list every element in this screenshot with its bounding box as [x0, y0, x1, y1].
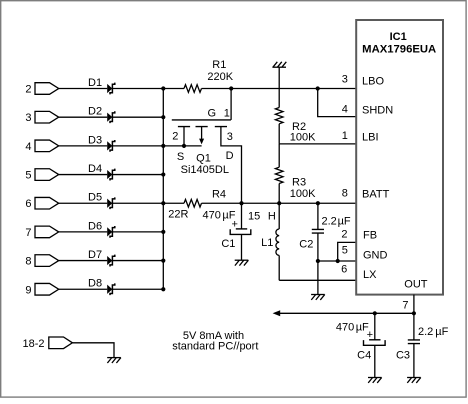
svg-text:100K: 100K — [290, 132, 316, 144]
svg-text:Si1405DL: Si1405DL — [181, 164, 229, 176]
connector pin 2 — [25, 83, 58, 96]
svg-text:5: 5 — [342, 245, 348, 257]
svg-text:2.2µF: 2.2µF — [322, 215, 351, 227]
svg-text:D3: D3 — [88, 134, 102, 146]
svg-text:7: 7 — [402, 300, 408, 312]
wire pin 7 to D6 — [59, 231, 107, 233]
diode D8 (Schottky) — [88, 278, 115, 296]
wire pin 9 to D8 — [59, 288, 107, 290]
svg-text:D6: D6 — [88, 220, 102, 232]
diode D2 (Schottky) — [88, 106, 115, 124]
svg-text:1: 1 — [342, 130, 348, 142]
junction D7/bus — [161, 258, 165, 262]
IC1 pin 6 number — [341, 263, 347, 275]
svg-text:7: 7 — [25, 227, 31, 239]
junction C2/GND node — [316, 259, 320, 263]
svg-text:220K: 220K — [207, 71, 233, 83]
wire D6 to OR-bus — [112, 231, 163, 233]
svg-text:C4: C4 — [357, 350, 371, 362]
diode D3 (Schottky) — [88, 134, 115, 152]
svg-text:FB: FB — [363, 229, 377, 241]
svg-text:OUT: OUT — [404, 279, 428, 291]
svg-text:3: 3 — [25, 112, 31, 124]
ground (C2) — [311, 295, 325, 300]
IC1 pin 2 number — [341, 228, 347, 240]
junction gate node — [229, 86, 233, 90]
Q1 designator — [196, 153, 211, 165]
resistor R3 100K — [275, 167, 316, 200]
wire C2 node to BATT pin 8 — [318, 202, 356, 204]
junction C2 node — [316, 201, 320, 205]
wire R2 to LBI junction — [278, 124, 280, 144]
svg-text:Q1: Q1 — [196, 153, 211, 165]
IC1 pin label LBO — [362, 76, 384, 88]
IC1 pin label OUT — [404, 279, 428, 291]
svg-text:LBO: LBO — [362, 76, 384, 88]
IC1 pin 3 number — [342, 74, 348, 86]
svg-text:D5: D5 — [88, 192, 102, 204]
wire gate node to LBO pin 3 — [231, 88, 356, 90]
IC1 pin label GND — [363, 250, 388, 262]
svg-text:H: H — [268, 211, 276, 223]
connector pin 5 — [25, 169, 58, 182]
svg-text:4: 4 — [342, 104, 348, 116]
junction LBO/SHDN node — [316, 86, 320, 90]
svg-text:GND: GND — [363, 250, 388, 262]
IC1 pin 7 number — [402, 300, 408, 312]
Q1 drain pin number 3 — [227, 131, 233, 143]
svg-text:standard PC//port: standard PC//port — [172, 341, 258, 353]
wire rail symbol through LBO rail to R2 — [278, 67, 280, 107]
IC1 pin 8 number — [342, 187, 348, 199]
svg-text:SHDN: SHDN — [362, 105, 393, 117]
diode D6 (Schottky) — [88, 220, 115, 238]
connector pin 3 — [25, 111, 58, 124]
wire bus to R1 — [163, 88, 184, 90]
svg-text:LX: LX — [363, 269, 377, 281]
wire L1 to LX pin 6 — [279, 279, 356, 281]
junction C1/drain node — [239, 201, 243, 205]
IC1 pin label SHDN — [362, 105, 393, 117]
wire bus to Q1 source — [163, 145, 201, 147]
IC1 pin label BATT — [362, 189, 390, 201]
capacitor C3 2.2µF — [396, 313, 449, 377]
wire C1 node to L1 node — [242, 202, 280, 204]
resistor R4 22R — [168, 188, 226, 220]
svg-text:470µF: 470µF — [336, 321, 369, 333]
svg-text:IC1: IC1 — [390, 31, 407, 43]
junction D1/bus — [161, 86, 165, 90]
wire OR-bus vertical — [162, 89, 164, 290]
Q1 gate label G — [208, 107, 217, 119]
wire C2 node to ground — [317, 261, 319, 295]
svg-text:D7: D7 — [88, 249, 102, 261]
svg-text:15: 15 — [248, 211, 260, 223]
resistor R2 100K — [275, 108, 316, 144]
junction FB tie — [336, 259, 340, 263]
svg-text:6: 6 — [25, 198, 31, 210]
L1 value label 15 H — [248, 211, 276, 223]
connector pin 7 — [25, 226, 58, 239]
junction D4/bus — [161, 172, 165, 176]
ground (C1) — [235, 260, 249, 265]
wire C2 node to GND pin 5 — [318, 260, 356, 262]
svg-text:MAX1796EUA: MAX1796EUA — [362, 43, 436, 55]
inductor L1 — [261, 203, 279, 280]
wire pin 8 to D7 — [59, 260, 107, 262]
svg-text:BATT: BATT — [362, 189, 390, 201]
wire D4 to OR-bus — [112, 174, 163, 176]
svg-text:2: 2 — [172, 131, 178, 143]
connector pin 6 — [25, 197, 58, 210]
svg-text:3: 3 — [342, 74, 348, 86]
wire pin 4 to D3 — [59, 145, 107, 147]
svg-text:D2: D2 — [88, 106, 102, 118]
junction D5/bus — [161, 201, 165, 205]
svg-text:R4: R4 — [212, 188, 226, 200]
connector pin 18-2 — [22, 337, 72, 350]
wire D2 to OR-bus — [112, 116, 163, 118]
wire OUT pin 7 — [413, 295, 415, 314]
wire LBI junction to pin 1 — [279, 143, 356, 145]
caption: 5V 8mA with standard PC//port — [172, 330, 258, 353]
svg-text:2: 2 — [25, 84, 31, 96]
Q1 gate pin number 1 — [224, 107, 230, 119]
IC1 pin 5 number — [342, 245, 348, 257]
diode D4 (Schottky) — [88, 163, 115, 181]
svg-text:5: 5 — [25, 170, 31, 182]
svg-text:D4: D4 — [88, 163, 102, 175]
svg-text:D1: D1 — [88, 77, 102, 89]
wire 18-2 to ground — [72, 343, 114, 358]
wire L1 node to C2 node — [279, 202, 318, 204]
diode D5 (Schottky) — [88, 192, 115, 210]
svg-text:S: S — [177, 151, 184, 163]
svg-text:D8: D8 — [88, 278, 102, 290]
svg-text:22R: 22R — [168, 208, 188, 220]
svg-text:+: + — [231, 219, 237, 231]
svg-text:R3: R3 — [292, 176, 306, 188]
connector pin 8 — [25, 255, 58, 268]
svg-text:C3: C3 — [396, 350, 410, 362]
svg-text:9: 9 — [25, 284, 31, 296]
junction C4 node — [373, 311, 377, 315]
svg-text:8: 8 — [25, 256, 31, 268]
wire pin 3 to D2 — [59, 116, 107, 118]
IC1 pin label FB — [363, 229, 377, 241]
wire D3 to OR-bus — [112, 145, 163, 147]
svg-text:C1: C1 — [221, 238, 235, 250]
svg-text:8: 8 — [342, 187, 348, 199]
svg-text:G: G — [208, 107, 217, 119]
wire LBI junction to R3 — [278, 144, 280, 167]
svg-text:4: 4 — [25, 141, 31, 153]
capacitor C1 470µF (electrolytic) — [203, 203, 251, 260]
wire output line with arrow — [273, 310, 414, 316]
Q1 drain label D — [226, 150, 234, 162]
svg-text:2: 2 — [341, 228, 347, 240]
Q1 source pin number 2 — [172, 131, 178, 143]
junction L1/R3 node — [277, 201, 281, 205]
svg-text:R1: R1 — [212, 59, 226, 71]
capacitor C2 2.2µF — [299, 203, 351, 261]
svg-text:+: + — [367, 329, 373, 341]
wire D7 to OR-bus — [112, 260, 163, 262]
Q1 source label S — [177, 151, 184, 163]
wire Q1 drain to C1 node — [221, 127, 242, 204]
ground (18-2) — [107, 358, 121, 363]
wire D8 to OR-bus — [112, 288, 163, 290]
junction D6/bus — [161, 230, 165, 234]
svg-text:100K: 100K — [290, 188, 316, 200]
connector pin 9 — [25, 283, 58, 296]
junction C3 node — [412, 311, 416, 315]
svg-text:LBI: LBI — [362, 131, 379, 143]
positive input rail symbol (chassis, hatches up) — [272, 62, 286, 67]
wire pin 6 to D5 — [59, 202, 107, 204]
IC1 pin label LBI — [362, 131, 379, 143]
svg-text:3: 3 — [227, 131, 233, 143]
IC IC1 MAX1796EUA — [356, 20, 443, 295]
ground (C4) — [368, 378, 382, 383]
diode D7 (Schottky) — [88, 249, 115, 267]
wire D1 to OR-bus — [112, 88, 163, 90]
wire pin 5 to D4 — [59, 174, 107, 176]
wire R1 to gate node — [202, 88, 232, 90]
svg-text:18-2: 18-2 — [22, 338, 44, 350]
resistor R1 220K — [184, 59, 234, 92]
junction Q1 source — [182, 144, 186, 148]
svg-text:C2: C2 — [299, 238, 313, 250]
wire D5 to OR-bus — [112, 202, 163, 204]
wire pin 2 to D1 — [59, 88, 107, 90]
ground (C3) — [407, 378, 421, 383]
junction D8/bus — [161, 287, 165, 291]
IC1 pin label LX — [363, 269, 377, 281]
IC1 pin 1 number — [342, 130, 348, 142]
junction D3/bus — [161, 144, 165, 148]
svg-text:6: 6 — [341, 263, 347, 275]
wire node to SHDN pin 4 — [318, 89, 357, 117]
svg-text:D: D — [226, 150, 234, 162]
diode D1 (Schottky) — [88, 77, 115, 95]
wire R3 to BATT line — [278, 184, 280, 204]
connector pin 4 — [25, 140, 58, 153]
wire FB pin 2 tie-down — [338, 242, 357, 261]
svg-text:1: 1 — [224, 107, 230, 119]
wire bus to R4 — [163, 202, 184, 204]
capacitor C4 470µF (electrolytic) — [336, 313, 385, 377]
Q1 part number Si1405DL — [181, 164, 229, 176]
svg-text:L1: L1 — [261, 237, 273, 249]
wire R4 to C1 node — [202, 202, 242, 204]
transistor Q1 p-MOSFET symbol — [172, 89, 231, 146]
junction D2/bus — [161, 115, 165, 119]
IC1 pin 4 number — [342, 104, 348, 116]
